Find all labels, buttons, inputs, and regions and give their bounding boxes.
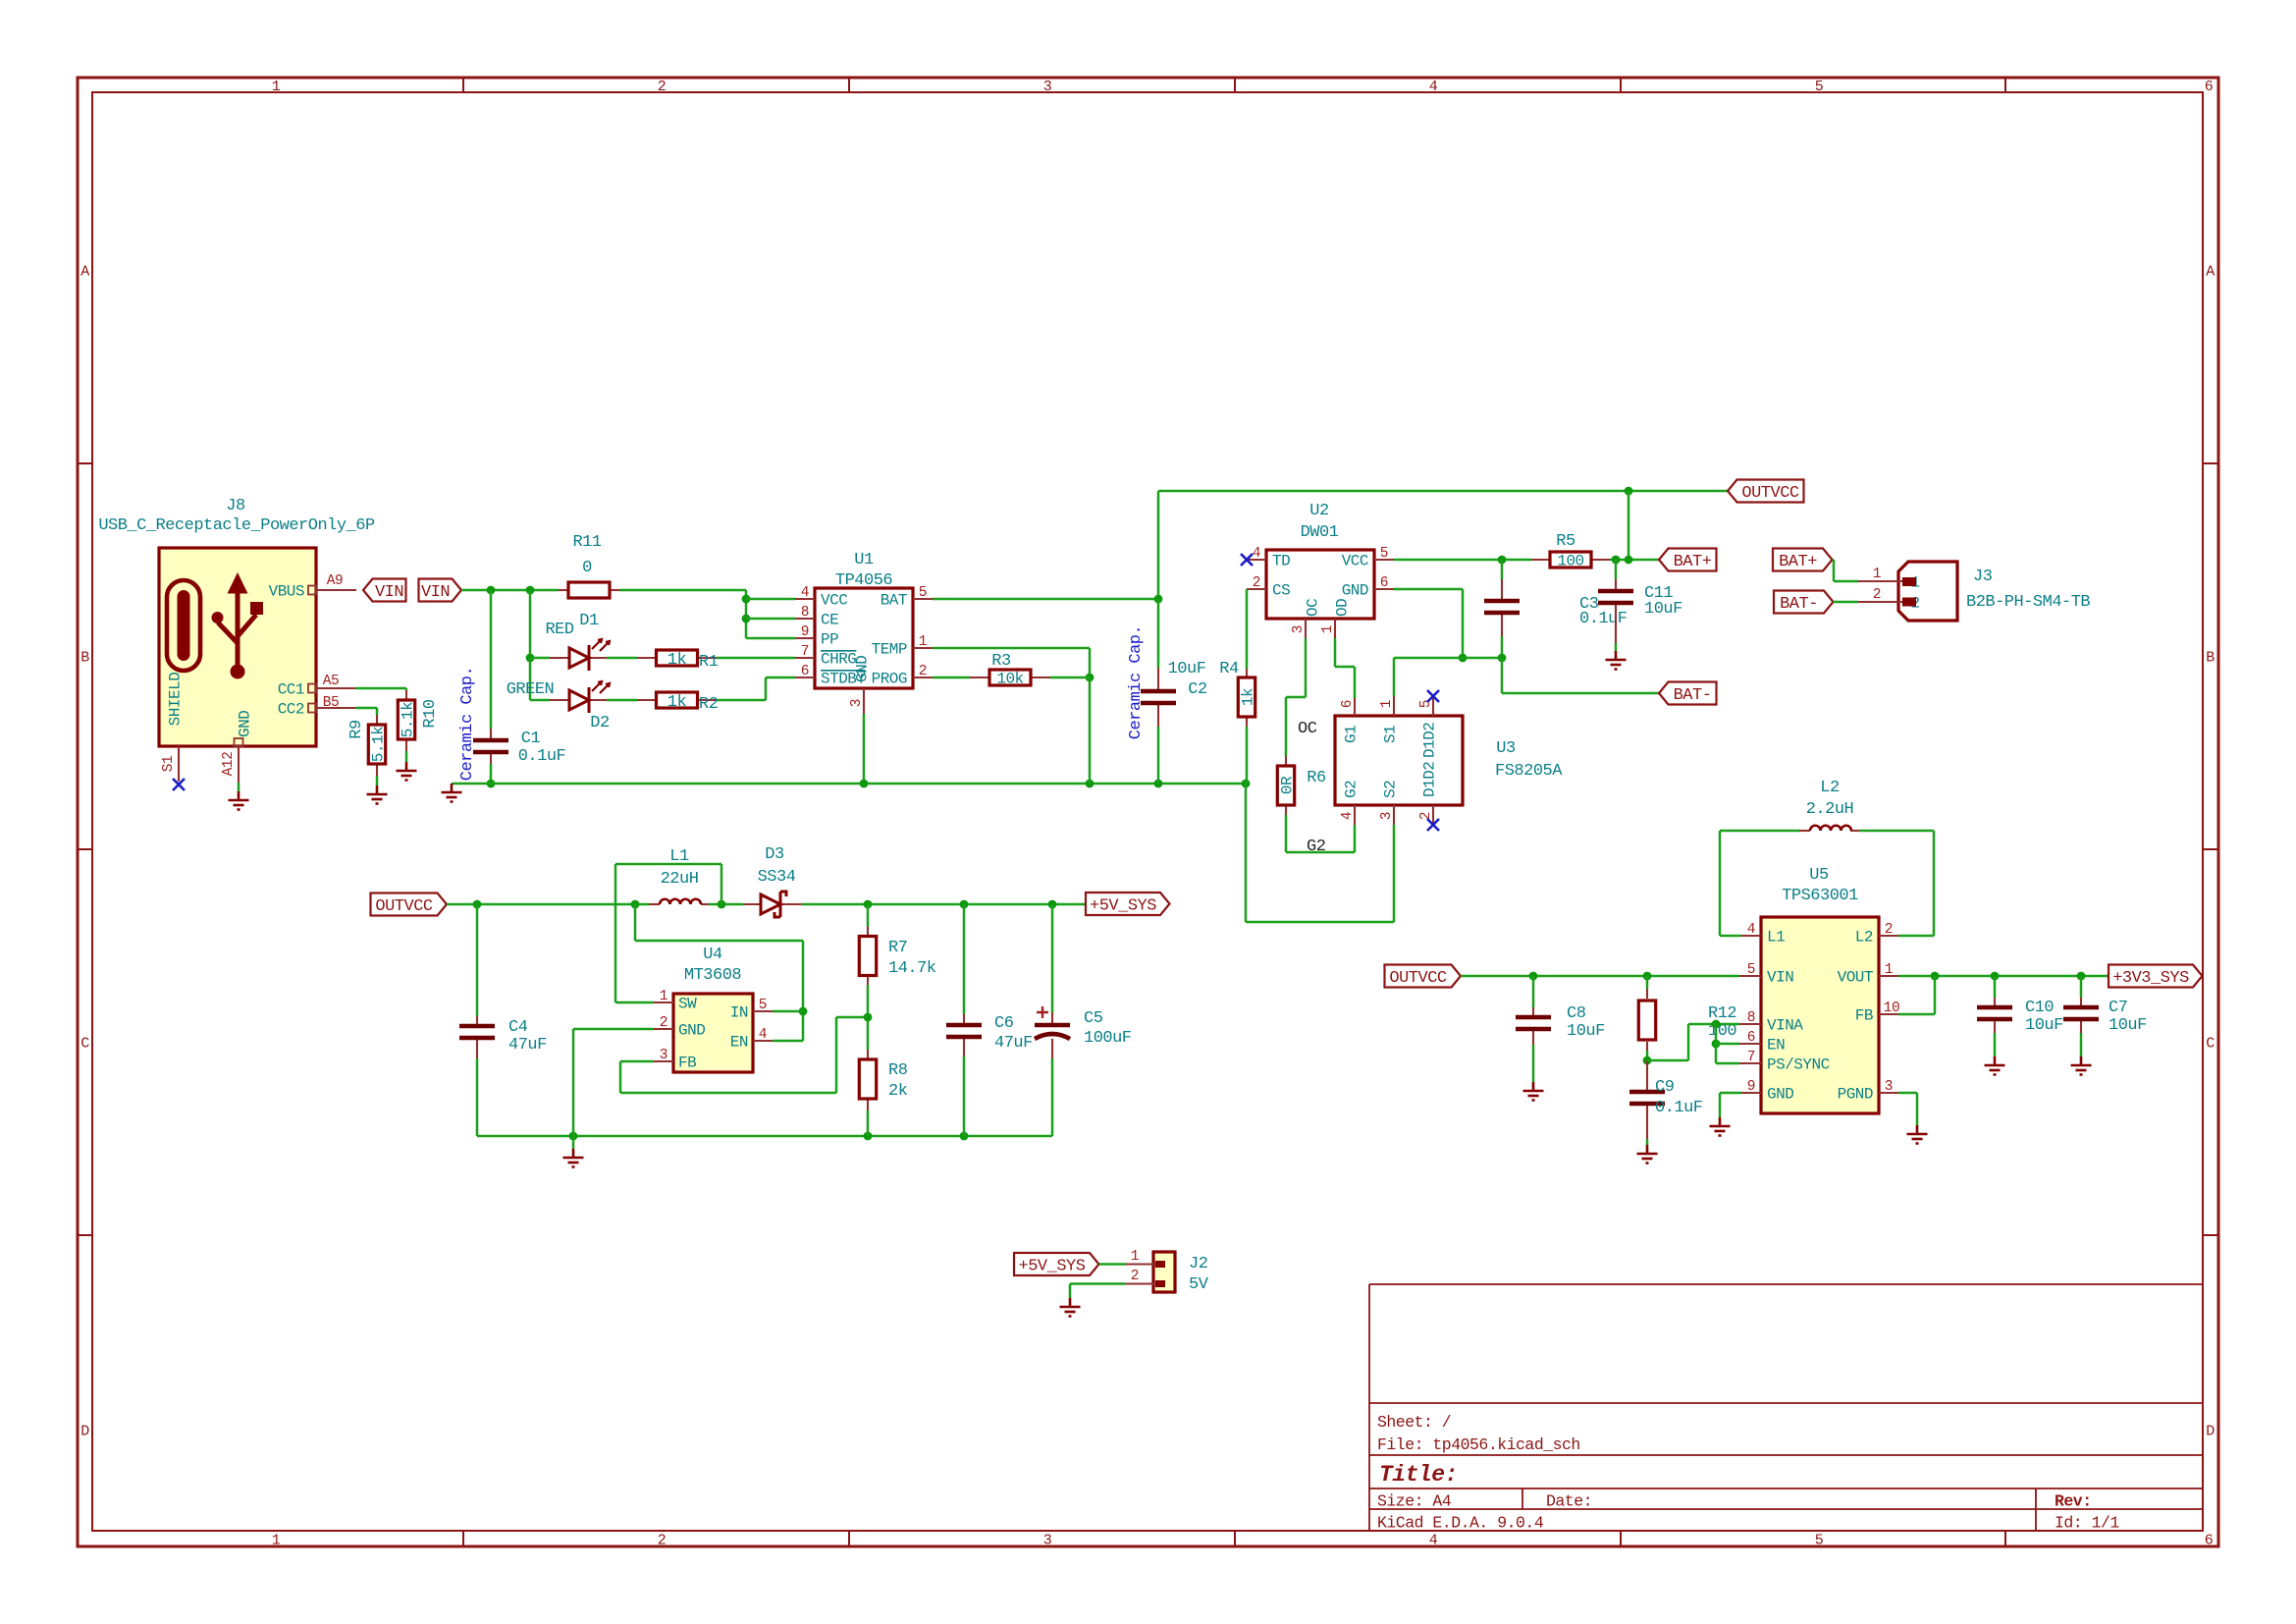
resistor R2 pins	[637, 699, 657, 701]
J2 pin 1	[1125, 1263, 1155, 1265]
junction	[1625, 556, 1633, 565]
svg-text:SW: SW	[678, 996, 697, 1013]
wire to SW	[615, 1001, 654, 1004]
resistor R11	[568, 582, 610, 598]
wire VINA	[1688, 1023, 1739, 1026]
svg-text:6: 6	[1380, 575, 1388, 591]
svg-text:OUTVCC: OUTVCC	[1389, 969, 1447, 988]
svg-text:5.1k: 5.1k	[370, 727, 388, 762]
capacitor C9	[1629, 1092, 1665, 1104]
wire gnd bus down	[1245, 784, 1248, 922]
svg-text:D2: D2	[590, 714, 609, 732]
svg-text:FS8205A: FS8205A	[1495, 762, 1563, 781]
wire OC down	[1305, 638, 1308, 697]
svg-text:BAT+: BAT+	[1779, 553, 1817, 571]
svg-text:2: 2	[658, 1532, 667, 1548]
wire VIN to U1	[619, 589, 746, 592]
junction	[1625, 487, 1633, 496]
U3 pin 1 S1	[1393, 696, 1395, 716]
svg-text:Date:: Date:	[1546, 1491, 1592, 1510]
USB receptacle icon	[167, 580, 200, 671]
wire PS/SYNC	[1716, 1062, 1739, 1065]
wire C8 down	[1532, 1045, 1535, 1082]
capacitor C8	[1516, 1017, 1551, 1029]
U3 pin 5 D1D2	[1432, 696, 1434, 716]
svg-text:0.1uF: 0.1uF	[1655, 1099, 1703, 1117]
wire SW loop left	[614, 864, 617, 1002]
U2 pin 1 OD	[1334, 619, 1336, 638]
LED D2 pins	[550, 699, 569, 701]
svg-text:6: 6	[1747, 1030, 1755, 1046]
svg-text:VIN: VIN	[375, 583, 403, 602]
junction	[526, 654, 535, 663]
svg-text:3: 3	[1043, 79, 1052, 95]
svg-text:GND: GND	[854, 656, 872, 682]
junction	[2077, 972, 2086, 981]
junction	[1154, 780, 1163, 788]
svg-text:0R: 0R	[1279, 776, 1297, 794]
wire GND down	[1719, 1093, 1722, 1117]
junction	[860, 780, 869, 788]
svg-text:C6: C6	[994, 1014, 1014, 1033]
junction	[960, 1132, 969, 1141]
wire to S1	[1393, 658, 1396, 696]
svg-text:J8: J8	[226, 497, 245, 515]
svg-text:Rev:: Rev:	[2055, 1491, 2092, 1510]
wire to G2 pin	[1354, 825, 1357, 852]
wire to PP	[746, 637, 795, 640]
svg-text:1: 1	[1131, 1249, 1139, 1265]
U5 pin 7 PS/SYNC	[1739, 1062, 1761, 1064]
global label VIN	[363, 579, 406, 602]
svg-text:2: 2	[1873, 587, 1881, 603]
svg-text:2: 2	[919, 664, 927, 679]
wire to IN	[635, 940, 803, 943]
global label +5V_SYS	[1086, 893, 1170, 915]
pin GND A12	[238, 746, 240, 783]
capacitor C5	[1035, 1023, 1070, 1028]
no-connect	[1427, 690, 1439, 702]
svg-text:Ceramic Cap.: Ceramic Cap.	[1127, 625, 1146, 739]
wire OD down	[1334, 638, 1337, 667]
svg-text:5V: 5V	[1189, 1275, 1209, 1294]
junction	[1712, 1040, 1721, 1049]
resistor R7 pins	[867, 927, 869, 937]
wire to C4	[476, 904, 479, 1016]
svg-text:6: 6	[1340, 700, 1356, 708]
ground	[1606, 651, 1627, 670]
U2 pin 4 TD	[1247, 559, 1266, 561]
svg-text:USB_C_Receptacle_PowerOnly_6P: USB_C_Receptacle_PowerOnly_6P	[98, 516, 375, 535]
svg-text:R9: R9	[347, 720, 366, 739]
wire D2 to R2	[607, 699, 637, 702]
U1 pin 3 GND	[863, 688, 865, 714]
title block	[1369, 1284, 2203, 1531]
svg-text:10uF: 10uF	[1567, 1022, 1605, 1041]
svg-text:Ceramic Cap.: Ceramic Cap.	[458, 667, 477, 781]
svg-text:FB: FB	[1855, 1007, 1873, 1025]
wire VIN drop	[745, 590, 748, 638]
wire OUTVCC to VIN	[1461, 975, 1739, 978]
wire R10 down	[405, 751, 408, 762]
svg-text:RED: RED	[545, 621, 573, 639]
inductor L2	[1810, 826, 1851, 831]
wire to R12	[1646, 976, 1649, 989]
wire R5 to BAT+	[1610, 559, 1659, 562]
inductor L1 pins	[649, 903, 660, 905]
svg-text:S2: S2	[1382, 781, 1400, 798]
svg-text:PROG: PROG	[872, 671, 907, 688]
wire OUTVCC down	[634, 904, 637, 941]
svg-text:1: 1	[272, 1532, 281, 1548]
capacitor C4	[459, 1026, 495, 1038]
svg-text:C5: C5	[1084, 1009, 1103, 1028]
U5 pin 1 VOUT	[1879, 975, 1898, 977]
svg-text:SS34: SS34	[758, 868, 796, 887]
resistor R5	[1550, 552, 1591, 568]
junction	[742, 615, 751, 623]
svg-text:L2: L2	[1855, 929, 1873, 947]
svg-text:1k: 1k	[667, 693, 687, 712]
J3 pin 1	[1858, 580, 1904, 582]
wire R1 to CHRG	[717, 657, 795, 660]
svg-text:5: 5	[1747, 962, 1755, 978]
svg-text:BAT+: BAT+	[1674, 553, 1712, 571]
svg-text:8: 8	[801, 605, 809, 621]
global label +3V3_SYS	[2109, 965, 2203, 988]
wire BAT-	[1502, 692, 1659, 695]
wire L2 rail right	[1859, 830, 1934, 833]
ground	[442, 784, 462, 802]
wire OUTVCC down	[1628, 491, 1630, 560]
wire down	[376, 708, 379, 715]
svg-text:CC1: CC1	[278, 681, 304, 699]
svg-text:10uF: 10uF	[1644, 600, 1682, 619]
resistor R7	[859, 937, 876, 976]
wire U1 GND down	[863, 714, 866, 784]
svg-text:+5V_SYS: +5V_SYS	[1019, 1258, 1086, 1276]
junction	[718, 900, 726, 909]
wire EN	[1716, 1043, 1739, 1046]
svg-text:1k: 1k	[667, 651, 687, 670]
junction	[1643, 1056, 1652, 1065]
wire OUTVCC row	[447, 903, 649, 906]
wire U4 GND left	[573, 1028, 654, 1031]
wire VINA path	[1647, 1059, 1688, 1062]
svg-text:+3V3_SYS: +3V3_SYS	[2112, 969, 2189, 988]
wire BAT	[933, 598, 1158, 601]
wire PGND	[1898, 1092, 1917, 1095]
wire to J2 pin1	[1099, 1263, 1126, 1266]
wire to L2 pin	[1898, 935, 1934, 938]
svg-text:TEMP: TEMP	[872, 641, 907, 659]
LED D1 pins	[550, 657, 569, 659]
wire OD to G1	[1354, 667, 1357, 698]
wire to gnd sym	[572, 1136, 575, 1149]
svg-text:TD: TD	[1272, 553, 1290, 570]
svg-text:4: 4	[1340, 812, 1356, 820]
IC U4 MT3608	[673, 994, 753, 1072]
no-connect	[173, 779, 185, 790]
svg-text:2: 2	[658, 79, 667, 95]
wire J2 pin2	[1070, 1282, 1125, 1285]
wire down	[405, 688, 408, 690]
svg-text:U3: U3	[1496, 739, 1516, 758]
wire PROG	[933, 677, 970, 679]
svg-text:4: 4	[759, 1027, 767, 1043]
wire C3 down	[1501, 636, 1504, 658]
svg-text:8: 8	[1747, 1010, 1755, 1026]
resistor R6 pins	[1285, 756, 1287, 766]
wire R7 to R8	[867, 985, 870, 1050]
resistor R11 pins	[559, 589, 568, 591]
junction	[1612, 556, 1621, 565]
svg-text:D: D	[2206, 1423, 2215, 1439]
svg-text:100: 100	[1557, 553, 1583, 570]
svg-text:0.1uF: 0.1uF	[518, 747, 566, 766]
diode D3 SS34	[761, 894, 780, 914]
svg-text:BAT-: BAT-	[1674, 686, 1712, 705]
capacitor C8 leads	[1532, 1007, 1534, 1017]
svg-text:2: 2	[1418, 812, 1434, 820]
svg-text:4: 4	[1253, 546, 1260, 562]
capacitor C11	[1598, 591, 1633, 603]
wire FB across	[620, 1092, 836, 1095]
wire D3 to +5V_SYS	[801, 903, 1086, 906]
U5 pin 10 FB	[1879, 1013, 1898, 1015]
svg-text:PS/SYNC: PS/SYNC	[1767, 1056, 1830, 1074]
svg-text:9: 9	[801, 624, 809, 640]
wire to C3	[1501, 560, 1504, 579]
svg-text:7: 7	[801, 644, 809, 660]
resistor R10 pins	[405, 690, 407, 700]
U5 pin 6 EN	[1739, 1043, 1761, 1045]
svg-text:A5: A5	[323, 674, 339, 689]
U4 pin 3 FB	[654, 1060, 673, 1062]
svg-text:10uF: 10uF	[1168, 660, 1206, 678]
U5 pin 4 L1	[1741, 935, 1761, 937]
wire VINA up	[1687, 1024, 1690, 1060]
svg-text:L1: L1	[1767, 929, 1785, 947]
wire VIN	[461, 589, 559, 592]
svg-text:C1: C1	[521, 730, 541, 748]
wire S1 row	[1394, 657, 1502, 660]
svg-text:CC2: CC2	[278, 701, 304, 719]
J3 pin 2	[1858, 601, 1904, 603]
diode D3 SS34 pins	[743, 903, 761, 905]
svg-text:5: 5	[1815, 79, 1824, 95]
wire C1 to gnd bus	[490, 764, 493, 784]
U4 pin 4 EN	[753, 1040, 773, 1042]
svg-text:VBUS: VBUS	[269, 583, 304, 601]
svg-text:2k: 2k	[888, 1082, 908, 1101]
junction	[799, 1007, 808, 1016]
svg-text:FB: FB	[678, 1055, 696, 1072]
svg-text:SHIELD: SHIELD	[167, 673, 185, 727]
capacitor C1	[473, 740, 508, 752]
svg-text:L2: L2	[1820, 779, 1839, 797]
wire gnd bus right	[1246, 921, 1394, 924]
svg-text:C2: C2	[1188, 680, 1206, 699]
junction	[742, 595, 751, 604]
svg-text:S1: S1	[161, 756, 177, 772]
svg-text:U2: U2	[1309, 502, 1328, 520]
resistor R6	[1277, 766, 1294, 805]
U5 pin 9 GND	[1741, 1092, 1761, 1094]
wire to STDBY	[766, 677, 795, 679]
svg-text:2: 2	[1253, 575, 1260, 591]
U1 pin 6 STDBY	[795, 677, 815, 678]
svg-text:Sheet: /: Sheet: /	[1377, 1413, 1451, 1432]
svg-text:2.2uH: 2.2uH	[1806, 800, 1854, 819]
svg-text:C7: C7	[2109, 999, 2127, 1017]
svg-text:1: 1	[1379, 700, 1395, 708]
junction	[1498, 556, 1507, 565]
wire to gnd bus	[1089, 677, 1092, 784]
U4 pin 5 IN	[753, 1010, 773, 1012]
wire to C6	[963, 904, 966, 1014]
resistor R9	[368, 725, 385, 764]
svg-text:GND: GND	[1767, 1086, 1793, 1104]
svg-text:R8: R8	[888, 1061, 908, 1080]
wire R8 down	[867, 1110, 870, 1136]
svg-text:A9: A9	[327, 573, 343, 589]
junction	[1529, 972, 1538, 981]
wire BAT+ down	[1833, 560, 1836, 581]
wire CS to R4	[1246, 589, 1249, 669]
junction	[487, 586, 496, 595]
capacitor C2	[1141, 691, 1176, 703]
U4 pin 1 SW	[654, 1001, 673, 1003]
connector J3 B2B-PH-SM4-TB	[1898, 562, 1957, 621]
svg-text:J3: J3	[1973, 568, 1993, 586]
svg-text:PP: PP	[821, 631, 838, 649]
svg-text:S1: S1	[1382, 726, 1400, 743]
svg-text:C4: C4	[508, 1018, 528, 1037]
inductor L2 pins	[1799, 830, 1810, 832]
U1 pin 9 PP	[795, 637, 815, 639]
wire to D2	[529, 658, 532, 700]
svg-text:B5: B5	[323, 695, 339, 711]
capacitor C6 leads	[963, 1014, 965, 1025]
resistor R1 pins	[637, 657, 657, 659]
wire G2 row	[1286, 851, 1355, 854]
svg-text:0.1uF: 0.1uF	[1579, 610, 1628, 628]
U1 pin 7 CHRG	[795, 657, 815, 659]
svg-text:KiCad E.D.A. 9.0.4: KiCad E.D.A. 9.0.4	[1377, 1513, 1544, 1532]
svg-text:10k: 10k	[996, 671, 1023, 688]
svg-text:R7: R7	[888, 939, 907, 957]
wire TEMP	[933, 647, 1090, 650]
junction	[1712, 1020, 1721, 1029]
U3 pin 2 D1D2	[1432, 805, 1434, 825]
svg-text:10uF: 10uF	[2109, 1016, 2147, 1035]
wire BAT up	[1157, 491, 1160, 599]
resistor R3 pins	[970, 677, 989, 678]
svg-text:File: tp4056.kicad_sch: File: tp4056.kicad_sch	[1377, 1435, 1580, 1454]
capacitor C7	[2063, 1007, 2099, 1019]
svg-text:10: 10	[1884, 1001, 1900, 1016]
U2 pin 3 OC	[1305, 619, 1307, 638]
ground	[1060, 1298, 1081, 1317]
svg-text:4: 4	[1429, 79, 1438, 95]
wire PGND down	[1916, 1093, 1919, 1125]
svg-text:6: 6	[801, 664, 809, 679]
no-connect	[1241, 554, 1253, 566]
wire R2 right	[717, 699, 766, 702]
resistor R1	[657, 650, 698, 666]
svg-text:TPS63001: TPS63001	[1782, 887, 1858, 905]
IC U3 FS8205A	[1335, 716, 1463, 805]
wire FB to divider	[836, 1016, 868, 1019]
wire to C10	[1994, 976, 1997, 998]
capacitor C1 leads	[490, 729, 492, 740]
junction	[473, 900, 482, 909]
wire	[238, 783, 240, 791]
svg-text:4: 4	[1747, 922, 1755, 938]
svg-text:A12: A12	[221, 752, 237, 777]
svg-text:VIN: VIN	[421, 583, 450, 602]
IC U1 TP4056	[815, 588, 913, 688]
resistor R9 pins	[376, 715, 378, 725]
wire L2 right down	[1933, 831, 1936, 936]
resistor R8 pins	[867, 1050, 869, 1059]
wire C11 down	[1615, 643, 1618, 651]
global label BAT-	[1659, 682, 1717, 705]
U5 pin 2 L2	[1879, 935, 1898, 937]
wire to L1 pin	[1720, 935, 1741, 938]
wire OC to R6	[1285, 697, 1288, 756]
svg-text:C: C	[80, 1035, 89, 1052]
svg-text:B2B-PH-SM4-TB: B2B-PH-SM4-TB	[1966, 593, 2090, 612]
svg-text:3: 3	[849, 699, 865, 707]
svg-text:3: 3	[1043, 1532, 1052, 1548]
svg-text:C10: C10	[2025, 999, 2054, 1017]
resistor R3	[989, 670, 1031, 685]
wire VOUT	[1898, 975, 2109, 978]
connector J2 5V	[1153, 1252, 1175, 1292]
svg-text:1: 1	[660, 989, 667, 1004]
svg-text:6: 6	[2205, 79, 2214, 95]
svg-text:J2: J2	[1189, 1255, 1207, 1273]
connector J8 USB_C_Receptacle_PowerOnly_6P	[159, 548, 316, 746]
no-connect	[1427, 819, 1439, 831]
wire SW loop top	[615, 863, 721, 866]
svg-text:6: 6	[2205, 1532, 2214, 1548]
U5 pin 8 VINA	[1739, 1023, 1761, 1025]
svg-text:A: A	[2206, 263, 2215, 280]
svg-text:D: D	[80, 1423, 89, 1439]
junction	[1991, 972, 2000, 981]
svg-text:3: 3	[1885, 1079, 1893, 1095]
global label BAT-	[1774, 591, 1834, 614]
wire to VCC	[746, 598, 795, 601]
LED D2	[569, 690, 589, 710]
USB trident icon	[236, 593, 240, 666]
svg-text:1: 1	[272, 79, 281, 95]
junction	[1242, 780, 1251, 788]
global label +5V_SYS at J2	[1014, 1253, 1099, 1275]
wire up to STDBY	[765, 677, 768, 700]
svg-text:2: 2	[1885, 922, 1893, 938]
wire CC2	[355, 707, 377, 710]
wire C4 down	[476, 1058, 479, 1136]
svg-text:4: 4	[1429, 1532, 1438, 1548]
svg-text:22uH: 22uH	[661, 870, 699, 889]
svg-text:D1D2: D1D2	[1421, 723, 1439, 758]
junction	[526, 586, 535, 595]
ground	[397, 762, 417, 781]
